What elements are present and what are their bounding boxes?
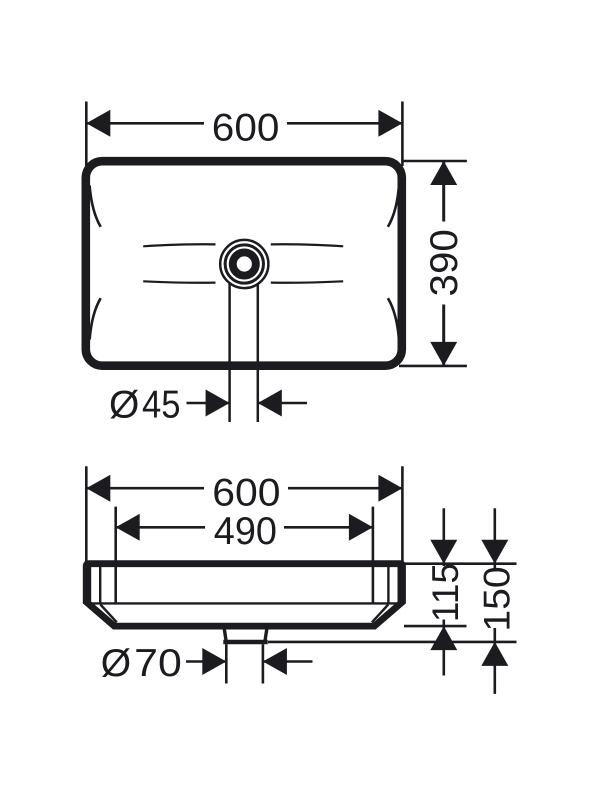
top view: basin contour line lower-right (271, 281, 343, 282)
front view: inner floor line (89, 602, 400, 604)
front view: basin profile thick outline (86, 564, 402, 626)
front view: arrowhead 150 lower (points up) (481, 642, 508, 666)
front view: inner wall line left a (89, 565, 91, 603)
front view: dimension line d70 left tail (186, 660, 226, 663)
front view: arrowhead 115 lower (points up) (430, 626, 457, 650)
top view: extension line left for 600 (85, 102, 88, 167)
front view: dimension 115 middle segment lower stub (442, 620, 445, 627)
svg-text:45: 45 (142, 384, 181, 427)
top view: drain middle circle (225, 245, 263, 283)
front view: dimension 150 lower tail (493, 642, 496, 694)
front view: arrowhead 600 left (86, 475, 110, 502)
top view: basin outline (rounded rectangle) (86, 161, 402, 366)
top view: arrowhead d45 left (points right) (206, 390, 230, 417)
front view: chamfer inner diagonal right b (372, 605, 388, 623)
svg-text:70: 70 (134, 642, 182, 685)
top view: basin contour line upper-left (143, 244, 215, 246)
front view: extension line right bottom edge (404, 625, 467, 628)
front view: dimension line 600 right segment (288, 487, 402, 490)
front view: extension line right top edge (404, 562, 517, 565)
svg-text:150: 150 (476, 566, 517, 631)
top view: dimension line 600 left segment (86, 122, 204, 125)
front view: dimension line 490 right segment (284, 526, 373, 529)
front view: extension line right for 600 (401, 466, 404, 562)
front view: dimension 150 upper tail (493, 508, 496, 563)
top view: arrowhead 390 bottom (430, 342, 457, 366)
front view: dimension line d70 right tail (263, 660, 313, 663)
front view: arrowhead 600 right (378, 475, 402, 502)
front view: dimension 115 lower tail (442, 626, 445, 675)
front view: extension/wall line left for 490 (114, 507, 117, 604)
svg-text:600: 600 (212, 472, 280, 515)
top view: dimension line d45 right tail (258, 402, 307, 405)
front view: arrowhead 490 right (349, 514, 373, 541)
svg-text:490: 490 (214, 510, 277, 553)
svg-text:Ø: Ø (109, 384, 139, 427)
svg-text:Ø: Ø (101, 642, 131, 685)
svg-text:115: 115 (425, 563, 466, 622)
front view: chamfer inner diagonal left a (89, 605, 114, 626)
front view: drain extension line left (d70) (225, 644, 228, 683)
top view: dimension line 390 lower segment (442, 305, 445, 366)
front view: dimension 150 middle segment upper stub (493, 564, 496, 570)
front view: extension line right drain cap level (268, 641, 517, 644)
top view: arrowhead 600 right (378, 110, 402, 137)
front view: extension/wall line right for 490 (372, 507, 375, 604)
top view: extension line right for 600 (401, 102, 404, 167)
top view: arrowhead 390 top (430, 161, 457, 185)
front view: chamfer inner diagonal left b (100, 605, 116, 623)
front view: drain tube wall left (224, 628, 226, 640)
front view: dimension 115 upper tail (442, 508, 445, 563)
top view: arrowhead 600 left (86, 110, 110, 137)
front view: dimension line 600 left segment (86, 487, 204, 490)
top view: dimension line 390 upper segment (442, 161, 445, 222)
front view: dimension 150 middle segment lower stub (493, 628, 496, 642)
front view: dimension line 490 left segment (116, 526, 205, 529)
front view: arrowhead 115 upper (points down) (430, 540, 457, 564)
top view: dimension 390 extension line top (403, 160, 467, 163)
front view: inner wall line right b (387, 565, 389, 603)
svg-text:390: 390 (423, 229, 466, 296)
top view: basin contour line lower-left (143, 281, 215, 282)
top view: inner corner arc bottom-left (90, 298, 101, 339)
front view: inner wall line right a (398, 565, 400, 603)
front view: drain tube wall right (265, 628, 267, 640)
front view: arrowhead d70 right (points left) (263, 648, 287, 675)
front view: arrowhead 490 left (116, 514, 140, 541)
top view: drain outer circle (220, 240, 268, 288)
top view: inner corner arc bottom-right (388, 298, 399, 339)
top view: inner corner arc top-left (90, 186, 101, 227)
top view: drain tangent extension line left (228, 283, 231, 422)
front view: arrowhead d70 left (points right) (202, 648, 226, 675)
top view: dimension 390 extension line bottom (399, 365, 467, 368)
front view: arrowhead 150 upper (points down) (481, 540, 508, 564)
front view: chamfer inner diagonal right a (374, 605, 399, 626)
top view: arrowhead d45 right (points left) (258, 390, 282, 417)
top view: inner corner arc top-right (388, 186, 399, 227)
top view: basin contour line upper-right (271, 244, 343, 246)
top view: dimension line d45 left tail (187, 402, 230, 405)
top view: drain plug thick ring (233, 252, 256, 275)
top view: dimension line 600 right segment (287, 122, 402, 125)
front view: dimension 115 middle segment upper stub (442, 564, 445, 566)
top view: drain tangent extension line right (257, 283, 260, 422)
front view: extension line left for 600 (85, 466, 88, 562)
front view: drain extension line right (d70) (262, 644, 265, 683)
svg-text:600: 600 (212, 107, 280, 150)
front view: inner wall line left b (99, 565, 101, 603)
front view: drain cap (223, 640, 267, 645)
